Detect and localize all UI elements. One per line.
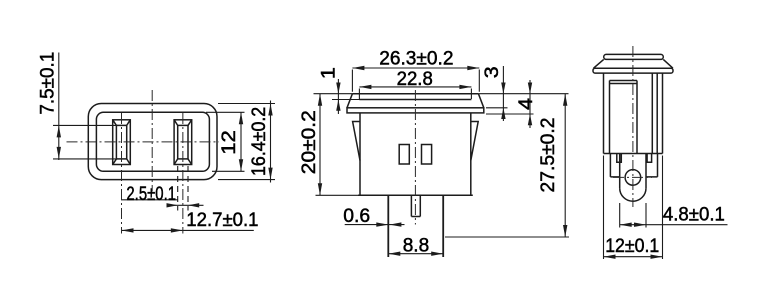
svg-text:8.8: 8.8 [403,235,430,257]
svg-text:26.3±0.2: 26.3±0.2 [379,48,453,70]
svg-text:27.5±0.2: 27.5±0.2 [537,118,559,193]
svg-text:2.5±0.1: 2.5±0.1 [126,183,176,205]
svg-text:12: 12 [218,130,240,155]
svg-text:20±0.2: 20±0.2 [298,110,320,174]
svg-text:12±0.1: 12±0.1 [605,235,659,257]
svg-text:1: 1 [318,67,340,79]
svg-text:16.4±0.2: 16.4±0.2 [248,107,270,176]
svg-text:12.7±0.1: 12.7±0.1 [186,209,258,231]
svg-text:4: 4 [515,98,537,110]
svg-text:0.6: 0.6 [343,205,370,227]
svg-text:4.8±0.1: 4.8±0.1 [663,203,725,225]
svg-text:3: 3 [481,66,503,78]
svg-text:7.5±0.1: 7.5±0.1 [36,52,58,115]
svg-text:22.8: 22.8 [397,68,433,90]
